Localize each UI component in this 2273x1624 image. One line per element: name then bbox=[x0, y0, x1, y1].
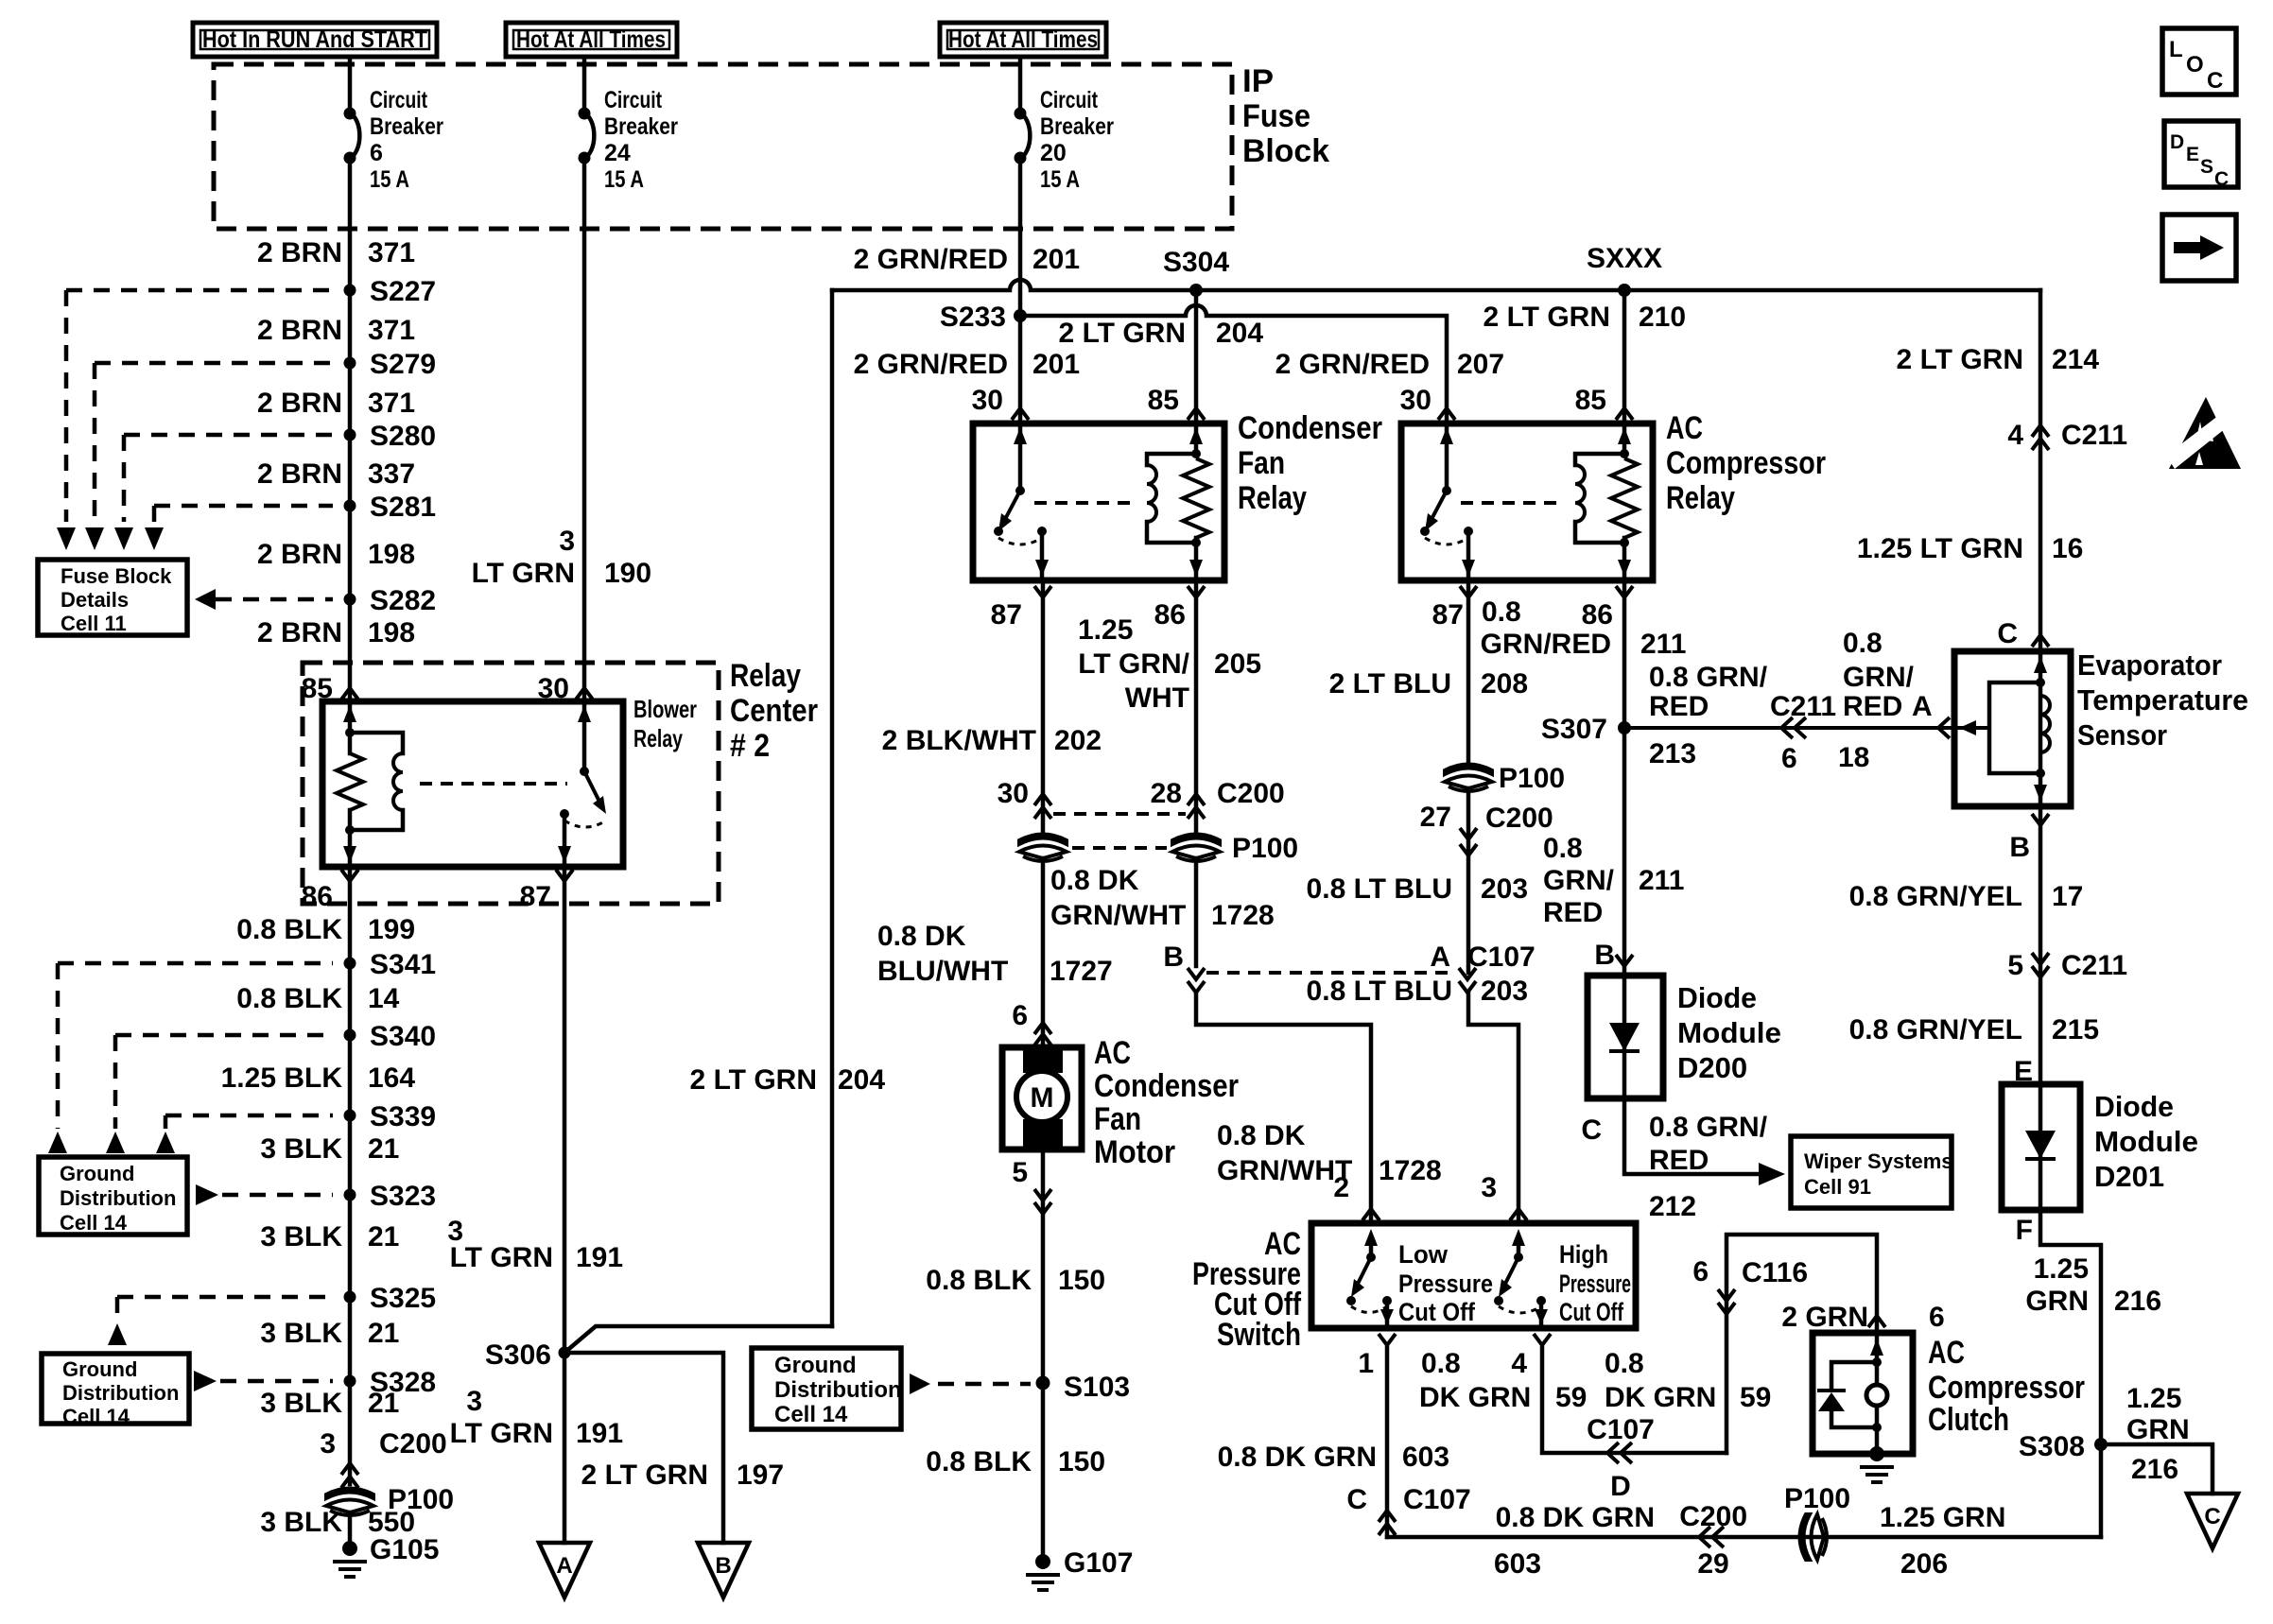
svg-text:Circuit: Circuit bbox=[370, 87, 428, 113]
svg-text:C: C bbox=[1346, 1484, 1367, 1515]
wire: pin 1 down to bottom run (0.8 DK GRN 603) bbox=[1385, 1348, 1390, 1537]
svg-text:S282: S282 bbox=[370, 585, 436, 616]
svg-text:B: B bbox=[1163, 942, 1184, 973]
grommet P100 (left) bbox=[326, 1484, 454, 1515]
switch pin 4 bbox=[1511, 1334, 1551, 1379]
relay control dashed bbox=[420, 782, 567, 786]
ESD warning symbol bbox=[2166, 397, 2241, 469]
wire label 2 LT GRN 197 bbox=[581, 1460, 785, 1491]
wire: C107 A to pressure switch pin 3 bbox=[1468, 993, 1518, 1223]
circuit breaker 20 (15 A) bbox=[1015, 57, 1115, 193]
reference box Wiper Systems Cell 91 bbox=[1791, 1136, 1953, 1208]
wire S233 to pin30 AC comp relay with hop over S304 riser bbox=[1020, 305, 1447, 423]
svg-text:201: 201 bbox=[1032, 349, 1080, 380]
svg-text:Cell 14: Cell 14 bbox=[62, 1405, 130, 1428]
svg-text:191: 191 bbox=[576, 1418, 623, 1449]
diode module D201 pin E bbox=[2014, 1056, 2033, 1087]
svg-text:C211: C211 bbox=[1770, 691, 1836, 722]
svg-text:C211: C211 bbox=[2061, 420, 2127, 451]
wire label 0.8 DK GRN/WHT 1728 (lower) bbox=[1217, 1120, 1442, 1186]
wire: S306 right branch to triangle B bbox=[564, 1353, 723, 1543]
svg-text:Cell 91: Cell 91 bbox=[1804, 1175, 1871, 1199]
svg-text:86: 86 bbox=[1582, 599, 1613, 631]
wire: blower 86 down ground chain bbox=[348, 867, 353, 1484]
AC condenser fan motor M1 bbox=[1002, 1047, 1082, 1149]
svg-text:20: 20 bbox=[1040, 140, 1067, 166]
svg-text:C200: C200 bbox=[379, 1428, 447, 1460]
svg-text:S307: S307 bbox=[1541, 714, 1607, 745]
switch pin 1 bbox=[1358, 1334, 1396, 1379]
off-page triangle C bbox=[2187, 1494, 2238, 1548]
wire label 0.8 LT BLU 203 (upper) bbox=[1307, 873, 1529, 905]
svg-text:0.8: 0.8 bbox=[1843, 628, 1883, 659]
connector C107 B/A dashed bbox=[1163, 942, 1535, 993]
svg-text:O: O bbox=[2186, 52, 2204, 78]
svg-text:LT GRN: LT GRN bbox=[450, 1242, 553, 1273]
svg-text:207: 207 bbox=[1457, 349, 1504, 380]
svg-text:199: 199 bbox=[368, 914, 415, 945]
svg-text:Pressure: Pressure bbox=[1559, 1270, 1631, 1298]
wire label 3 LT GRN 191 (above S306) bbox=[447, 1216, 623, 1273]
grommet P100 (bottom) bbox=[1784, 1483, 1850, 1560]
svg-text:215: 215 bbox=[2052, 1014, 2099, 1045]
connector C211 pin 4 bbox=[2007, 420, 2127, 451]
svg-text:3 BLK: 3 BLK bbox=[260, 1221, 342, 1253]
svg-text:Hot In RUN And START: Hot In RUN And START bbox=[202, 26, 427, 53]
wire label 2 BRN 371 bbox=[257, 237, 415, 268]
blower relay U1 bbox=[322, 701, 623, 867]
IP Fuse Block label bbox=[1242, 63, 1329, 169]
AC compressor clutch L1 bbox=[1813, 1333, 1913, 1482]
svg-text:1728: 1728 bbox=[1379, 1155, 1442, 1186]
svg-text:Distribution: Distribution bbox=[774, 1377, 902, 1403]
svg-text:206: 206 bbox=[1900, 1548, 1948, 1580]
svg-text:C200: C200 bbox=[1679, 1501, 1747, 1532]
diode module D201 name bbox=[2094, 1090, 2198, 1193]
svg-text:3 BLK: 3 BLK bbox=[260, 1133, 342, 1165]
wire label 1.25 LT GRN 16 bbox=[1857, 533, 2084, 564]
pin 87 condenser relay bbox=[991, 586, 1051, 631]
wire labels 0.8 DK GRN 59 (C116 drop) bbox=[1605, 1348, 1771, 1413]
pin 85 label (blower relay) bbox=[302, 673, 358, 704]
pin 30 AC comp relay bbox=[1400, 385, 1455, 420]
svg-text:0.8 GRN/: 0.8 GRN/ bbox=[1649, 1112, 1768, 1143]
wire label 0.8 GRN/YEL 17 bbox=[1849, 881, 2084, 912]
condenser fan relay U2 bbox=[973, 423, 1224, 580]
wire: riser to C116 and AC compressor clutch bbox=[1726, 1235, 1877, 1453]
svg-text:21: 21 bbox=[368, 1318, 399, 1349]
svg-text:1.25 LT GRN: 1.25 LT GRN bbox=[1857, 533, 2023, 564]
connector C200 pin 27 bbox=[1420, 788, 1553, 973]
circuit breaker 24 (15 A) bbox=[579, 57, 679, 193]
wire label 2 LT GRN 214 bbox=[1897, 344, 2100, 375]
svg-text:371: 371 bbox=[368, 315, 415, 346]
svg-text:2 GRN/RED: 2 GRN/RED bbox=[854, 244, 1008, 275]
splice S328 bbox=[344, 1367, 437, 1398]
evaporator temperature sensor name bbox=[2077, 648, 2248, 752]
wire label 3 LT GRN 190 bbox=[472, 526, 652, 589]
svg-text:203: 203 bbox=[1481, 976, 1528, 1007]
svg-text:Evaporator: Evaporator bbox=[2077, 648, 2222, 682]
svg-text:High: High bbox=[1559, 1240, 1608, 1269]
wire label 0.8 GRN/RED 211 (below S307) bbox=[1543, 833, 1684, 928]
diode module D200 bbox=[1588, 976, 1663, 1098]
svg-text:16: 16 bbox=[2052, 533, 2083, 564]
wire: bottom run C107-C to S308 riser bbox=[1387, 1535, 2101, 1540]
wire labels 0.8 DK GRN/WHT 1728 bbox=[1050, 865, 1275, 931]
connector C107 pin D bbox=[1587, 1414, 1655, 1502]
svg-text:204: 204 bbox=[838, 1064, 885, 1096]
wire label 0.8 BLK 150 bbox=[926, 1265, 1105, 1296]
svg-text:G107: G107 bbox=[1064, 1547, 1133, 1579]
svg-text:Cell 11: Cell 11 bbox=[61, 612, 127, 635]
svg-text:87: 87 bbox=[991, 599, 1022, 631]
wire dashed link S280 bbox=[124, 433, 333, 438]
splice S306 bbox=[485, 1339, 571, 1371]
svg-text:6: 6 bbox=[1929, 1302, 1945, 1333]
wire label 0.8 LT BLU 203 (lower) bbox=[1307, 976, 1529, 1007]
svg-text:Breaker: Breaker bbox=[370, 113, 443, 140]
svg-text:AC: AC bbox=[1928, 1335, 1965, 1371]
svg-text:1727: 1727 bbox=[1050, 956, 1113, 987]
svg-text:Circuit: Circuit bbox=[604, 87, 663, 113]
svg-text:GRN: GRN bbox=[2025, 1286, 2089, 1317]
connector C107 pin C bbox=[1346, 1484, 1470, 1535]
AC condenser fan motor name bbox=[1094, 1035, 1239, 1170]
svg-text:59: 59 bbox=[1555, 1382, 1587, 1413]
svg-text:3: 3 bbox=[320, 1428, 336, 1460]
splice S281 bbox=[344, 492, 437, 523]
svg-text:C200: C200 bbox=[1217, 778, 1285, 809]
svg-text:4: 4 bbox=[1511, 1348, 1527, 1379]
svg-text:59: 59 bbox=[1740, 1382, 1771, 1413]
svg-text:Breaker: Breaker bbox=[604, 113, 678, 140]
svg-text:18: 18 bbox=[1838, 742, 1869, 773]
svg-text:2 BRN: 2 BRN bbox=[257, 458, 342, 490]
splice SXXX bbox=[1587, 243, 1662, 297]
splice S308 bbox=[2019, 1431, 2108, 1462]
svg-text:Blower: Blower bbox=[633, 695, 697, 723]
diode module D201 pin F bbox=[2016, 1215, 2033, 1246]
svg-text:2 GRN/RED: 2 GRN/RED bbox=[1275, 349, 1430, 380]
svg-text:150: 150 bbox=[1058, 1446, 1105, 1477]
svg-text:3: 3 bbox=[466, 1386, 482, 1417]
wire label 0.8 BLK 14 bbox=[236, 983, 399, 1014]
svg-text:603: 603 bbox=[1402, 1442, 1449, 1473]
IP Fuse Block dashed enclosure bbox=[214, 64, 1232, 229]
svg-text:Distribution: Distribution bbox=[60, 1186, 176, 1210]
svg-text:S325: S325 bbox=[370, 1283, 436, 1314]
wire label 1.25 BLK 164 bbox=[221, 1063, 416, 1094]
svg-text:Relay: Relay bbox=[1238, 480, 1307, 516]
svg-text:B: B bbox=[2009, 832, 2030, 863]
sensor pin C bbox=[1997, 618, 2049, 649]
svg-text:Circuit: Circuit bbox=[1040, 87, 1099, 113]
legend box arrow bbox=[2162, 215, 2236, 281]
svg-text:164: 164 bbox=[368, 1063, 415, 1094]
connector C200 pin 29 bbox=[1494, 1501, 1747, 1580]
svg-text:5: 5 bbox=[1012, 1157, 1028, 1188]
svg-text:B: B bbox=[715, 1553, 731, 1579]
splice S233 and branch to AC compressor relay pin 30 bbox=[940, 302, 1027, 333]
splice S323 bbox=[344, 1181, 437, 1212]
svg-text:BLU/WHT: BLU/WHT bbox=[877, 956, 1008, 987]
svg-text:Cut Off: Cut Off bbox=[1398, 1298, 1476, 1326]
svg-text:Ground: Ground bbox=[62, 1357, 137, 1381]
wire: pin 4 jog to C116 riser bbox=[1542, 1348, 1726, 1453]
svg-text:211: 211 bbox=[1639, 865, 1684, 896]
ground G107 bbox=[1026, 1547, 1133, 1590]
svg-text:3: 3 bbox=[559, 526, 575, 557]
AC compressor clutch name bbox=[1928, 1335, 2085, 1438]
svg-text:F: F bbox=[2016, 1215, 2033, 1246]
svg-text:3 BLK: 3 BLK bbox=[260, 1388, 342, 1419]
svg-text:S: S bbox=[2200, 156, 2213, 178]
svg-text:30: 30 bbox=[998, 778, 1029, 809]
svg-text:15 A: 15 A bbox=[604, 166, 644, 193]
svg-text:Compressor: Compressor bbox=[1928, 1370, 2085, 1406]
svg-text:30: 30 bbox=[972, 385, 1003, 416]
wire label 2 GRN/RED 207 bbox=[1275, 349, 1504, 380]
svg-text:213: 213 bbox=[1649, 738, 1696, 769]
svg-text:5: 5 bbox=[2007, 950, 2023, 981]
svg-text:24: 24 bbox=[604, 140, 631, 166]
blower relay name bbox=[633, 695, 697, 752]
high pressure cut off switch bbox=[1517, 1238, 1521, 1257]
pin 86 label (blower relay) bbox=[302, 870, 358, 912]
svg-text:Block: Block bbox=[1242, 133, 1329, 169]
svg-text:LT GRN: LT GRN bbox=[450, 1418, 553, 1449]
svg-text:0.8 BLK: 0.8 BLK bbox=[236, 914, 342, 945]
svg-text:Module: Module bbox=[1677, 1016, 1781, 1049]
wire: condenser relay 86 down (1.25 LT GRN/WHT 205) bbox=[1194, 580, 1199, 836]
wire dashed drops to fuse block details bbox=[57, 290, 164, 550]
svg-text:S308: S308 bbox=[2019, 1431, 2085, 1462]
svg-text:0.8 GRN/: 0.8 GRN/ bbox=[1649, 662, 1768, 693]
splice S304 bbox=[1163, 247, 1229, 297]
reference box Ground Distribution Cell 14 (lower) bbox=[42, 1354, 189, 1428]
grommet P100 (right) bbox=[1445, 763, 1565, 794]
wire label 2 GRN/RED 201 (lower) bbox=[854, 349, 1080, 380]
svg-text:0.8 BLK: 0.8 BLK bbox=[236, 983, 342, 1014]
svg-text:C: C bbox=[2207, 68, 2223, 94]
svg-text:# 2: # 2 bbox=[730, 728, 770, 764]
svg-text:P100: P100 bbox=[1784, 1483, 1850, 1514]
svg-text:2 BRN: 2 BRN bbox=[257, 315, 342, 346]
svg-text:Fan: Fan bbox=[1094, 1101, 1141, 1137]
splice S340 bbox=[344, 1021, 437, 1052]
svg-text:RED: RED bbox=[1843, 691, 1902, 722]
svg-text:15 A: 15 A bbox=[370, 166, 409, 193]
pin 86 AC comp relay bbox=[1582, 586, 1633, 631]
pin 86 condenser relay bbox=[1154, 586, 1205, 631]
svg-text:C211: C211 bbox=[2061, 950, 2127, 981]
svg-text:0.8 DK GRN: 0.8 DK GRN bbox=[1218, 1442, 1377, 1473]
splice S282 bbox=[344, 585, 437, 616]
wire label 3 BLK 21 bbox=[260, 1388, 399, 1419]
svg-text:WHT: WHT bbox=[1125, 682, 1189, 714]
svg-text:Low: Low bbox=[1398, 1240, 1449, 1269]
pin 87 AC comp relay bbox=[1432, 586, 1477, 631]
wire dashed link S281 bbox=[154, 504, 333, 509]
svg-text:2 GRN/RED: 2 GRN/RED bbox=[854, 349, 1008, 380]
wire: AC comp relay 86 down to D200 (0.8 GRN/RED 211) bbox=[1622, 580, 1627, 976]
wire label 0.8 GRN/RED 211 bbox=[1481, 596, 1687, 660]
svg-text:15 A: 15 A bbox=[1040, 166, 1080, 193]
svg-text:S227: S227 bbox=[370, 276, 436, 307]
wire: D201 F down to S308 (1.25 GRN 216) bbox=[2040, 1210, 2101, 1537]
svg-text:LT GRN: LT GRN bbox=[472, 558, 575, 589]
svg-text:Ground: Ground bbox=[60, 1162, 134, 1185]
svg-text:Details: Details bbox=[61, 588, 129, 612]
svg-text:IP: IP bbox=[1242, 63, 1274, 99]
pin 87 label (blower relay) bbox=[520, 870, 573, 912]
svg-text:S304: S304 bbox=[1163, 247, 1229, 278]
diode module D200 pin B bbox=[1594, 940, 1633, 971]
svg-text:E: E bbox=[2186, 144, 2199, 165]
svg-text:2 BRN: 2 BRN bbox=[257, 237, 342, 268]
svg-text:S279: S279 bbox=[370, 349, 436, 380]
wire label 0.8 BLK 199 bbox=[236, 914, 415, 945]
svg-text:Distribution: Distribution bbox=[62, 1381, 179, 1405]
svg-text:190: 190 bbox=[604, 558, 651, 589]
svg-text:201: 201 bbox=[1032, 244, 1080, 275]
wire: top bus right corner down to evaporator sensor (2 LT GRN 214) bbox=[2039, 290, 2043, 651]
svg-text:Module: Module bbox=[2094, 1125, 2198, 1158]
wire label 2 BRN 337 bbox=[257, 458, 415, 490]
svg-text:337: 337 bbox=[368, 458, 415, 490]
wire: riser 2 LT GRN 204 (top bus to S306) bbox=[830, 290, 835, 1326]
svg-text:0.8 DK: 0.8 DK bbox=[1217, 1120, 1306, 1151]
wire dashed link S279 bbox=[95, 361, 333, 366]
connector C200 pin 3 bbox=[320, 1428, 446, 1488]
svg-text:C116: C116 bbox=[1742, 1257, 1808, 1288]
svg-text:D: D bbox=[2170, 131, 2184, 153]
svg-text:0.8 DK: 0.8 DK bbox=[1050, 865, 1139, 896]
wire labels 0.8 GRN/RED 213 / C211 6 / 0.8 GRN/RED 18 A bbox=[1649, 628, 1933, 774]
circuit breaker 6 (15 A) bbox=[344, 57, 444, 193]
Relay Center #2 dashed enclosure bbox=[303, 663, 719, 904]
svg-text:Temperature: Temperature bbox=[2077, 683, 2248, 717]
svg-text:Switch: Switch bbox=[1217, 1317, 1301, 1353]
wire: S307 to evaporator temperature sensor pin A bbox=[1624, 717, 1954, 738]
svg-text:87: 87 bbox=[1432, 599, 1464, 631]
svg-text:198: 198 bbox=[368, 617, 415, 648]
svg-text:GRN/WHT: GRN/WHT bbox=[1217, 1155, 1352, 1186]
svg-text:0.8 BLK: 0.8 BLK bbox=[926, 1446, 1032, 1477]
svg-text:2 BRN: 2 BRN bbox=[257, 617, 342, 648]
svg-text:210: 210 bbox=[1639, 302, 1686, 333]
wire label 1.25 GRN 216 bbox=[2025, 1253, 2161, 1317]
svg-text:214: 214 bbox=[2052, 344, 2099, 375]
svg-text:B: B bbox=[1594, 940, 1615, 971]
reference box Fuse Block Details Cell 11 bbox=[38, 560, 187, 635]
svg-text:6: 6 bbox=[1692, 1256, 1709, 1287]
svg-text:1728: 1728 bbox=[1211, 900, 1275, 931]
wire label 2 GRN/RED 201 (upper) bbox=[854, 244, 1080, 275]
svg-text:Cell 14: Cell 14 bbox=[774, 1402, 848, 1427]
svg-text:A: A bbox=[556, 1553, 572, 1579]
svg-text:197: 197 bbox=[737, 1460, 784, 1491]
splice S103 bbox=[1036, 1372, 1131, 1403]
svg-text:GRN/: GRN/ bbox=[1843, 662, 1915, 693]
Relay Center #2 label bbox=[730, 658, 818, 764]
svg-text:Diode: Diode bbox=[2094, 1090, 2174, 1123]
wire: P100 down to motor pin 6 bbox=[1041, 858, 1046, 1047]
svg-text:1.25: 1.25 bbox=[2126, 1383, 2181, 1414]
svg-text:G105: G105 bbox=[370, 1534, 439, 1565]
AC pressure cut off switch name bbox=[1192, 1226, 1302, 1353]
svg-text:AC: AC bbox=[1666, 410, 1703, 446]
svg-text:Compressor: Compressor bbox=[1666, 445, 1826, 481]
svg-text:0.8 GRN/YEL: 0.8 GRN/YEL bbox=[1849, 1014, 2022, 1045]
svg-text:204: 204 bbox=[1216, 318, 1263, 349]
svg-text:Fuse: Fuse bbox=[1242, 98, 1310, 134]
svg-text:6: 6 bbox=[1012, 1000, 1028, 1031]
svg-text:2 LT GRN: 2 LT GRN bbox=[690, 1064, 817, 1096]
svg-text:0.8 LT BLU: 0.8 LT BLU bbox=[1307, 976, 1452, 1007]
pin 85 condenser relay bbox=[1148, 385, 1205, 420]
evaporator temperature sensor bbox=[1954, 651, 2071, 806]
motor pin 5 bbox=[1012, 1157, 1051, 1214]
svg-text:Breaker: Breaker bbox=[1040, 113, 1114, 140]
svg-text:2 BRN: 2 BRN bbox=[257, 539, 342, 570]
svg-text:3 BLK: 3 BLK bbox=[260, 1507, 342, 1538]
svg-text:2 LT GRN: 2 LT GRN bbox=[1897, 344, 2023, 375]
svg-text:86: 86 bbox=[302, 881, 333, 912]
svg-text:1.25 BLK: 1.25 BLK bbox=[221, 1063, 343, 1094]
svg-text:30: 30 bbox=[1400, 385, 1431, 416]
wire: breaker 24 down to blower relay pin 30 bbox=[582, 158, 587, 701]
power feed box "Hot At All Times" (right) bbox=[940, 23, 1106, 57]
wire: breaker 6 output down left chain bbox=[348, 158, 353, 701]
svg-text:21: 21 bbox=[368, 1388, 399, 1419]
splice S280 bbox=[344, 421, 437, 452]
wire: blower 87 down to S306 and triangle A bbox=[563, 867, 567, 1543]
svg-text:17: 17 bbox=[2052, 881, 2083, 912]
wire: S308 branch to triangle C (1.25 GRN 216) bbox=[2101, 1444, 2212, 1494]
svg-text:S280: S280 bbox=[370, 421, 436, 452]
svg-text:1.25: 1.25 bbox=[2034, 1253, 2089, 1285]
svg-text:Wiper Systems: Wiper Systems bbox=[1804, 1149, 1953, 1173]
svg-text:0.8: 0.8 bbox=[1421, 1348, 1461, 1379]
svg-text:Fuse Block: Fuse Block bbox=[61, 564, 172, 588]
svg-text:C107: C107 bbox=[1467, 942, 1536, 973]
switch pin 2 bbox=[1333, 1172, 1379, 1220]
wire label 3 LT GRN 191 (below S306) bbox=[450, 1386, 624, 1449]
svg-text:A: A bbox=[1912, 691, 1933, 722]
splice S279 bbox=[344, 349, 437, 380]
svg-text:C107: C107 bbox=[1403, 1484, 1471, 1515]
svg-text:21: 21 bbox=[368, 1221, 399, 1253]
svg-text:AC: AC bbox=[1094, 1035, 1131, 1071]
wire dashed link S227 bbox=[66, 288, 333, 293]
svg-text:0.8 DK: 0.8 DK bbox=[877, 921, 966, 952]
svg-text:14: 14 bbox=[368, 983, 400, 1014]
svg-text:S323: S323 bbox=[370, 1181, 436, 1212]
svg-text:202: 202 bbox=[1054, 725, 1102, 756]
ground G105 bbox=[333, 1534, 439, 1577]
AC compressor relay name bbox=[1666, 410, 1826, 516]
svg-text:21: 21 bbox=[368, 1133, 399, 1165]
svg-text:D200: D200 bbox=[1677, 1051, 1747, 1084]
wire label 2 LT GRN 204 (riser) bbox=[690, 1064, 886, 1096]
wire dashed link S282 with arrow to fuse block details bbox=[195, 589, 333, 610]
AC compressor relay U3 bbox=[1401, 423, 1653, 580]
svg-text:0.8: 0.8 bbox=[1605, 1348, 1644, 1379]
legend box DESC bbox=[2164, 121, 2238, 190]
svg-text:Fan: Fan bbox=[1238, 445, 1285, 481]
